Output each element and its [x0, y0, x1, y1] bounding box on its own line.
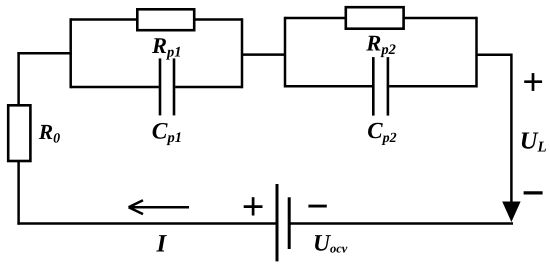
loop1 top wire right of Rp1 [194, 18, 242, 21]
wire R0 column lower vertical [17, 161, 20, 225]
capacitor Cp2 left plate [372, 57, 375, 116]
loop2 top wire right of Rp2 [404, 17, 477, 20]
loop2 right edge vertical [475, 17, 478, 88]
svg-text:UL: UL [520, 128, 547, 156]
svg-text:Rp1: Rp1 [151, 33, 182, 61]
current arrow open head lower stroke [129, 207, 143, 214]
resistor Rp2 [346, 7, 404, 29]
loop1 left edge vertical [69, 18, 72, 88]
svg-text:Uocv: Uocv [313, 230, 348, 256]
capacitor Cp1 right plate [173, 58, 176, 115]
capacitor Cp2 right plate [387, 57, 390, 116]
wire between loop1 and loop2 [242, 53, 285, 56]
battery Uocv long positive plate [276, 184, 279, 261]
loop2 left edge vertical [284, 17, 287, 88]
plus sign load UL [524, 80, 542, 83]
loop2 bottom wire right of Cp2 [389, 85, 476, 88]
loop1 right edge vertical [241, 18, 244, 88]
capacitor Cp1 left plate [159, 58, 162, 115]
svg-text:Rp2: Rp2 [365, 31, 396, 59]
wire bottom left segment to battery [17, 222, 277, 225]
svg-text:Cp2: Cp2 [367, 118, 396, 146]
load arrowhead solid triangle pointing down [502, 202, 520, 223]
minus sign near battery [308, 205, 326, 208]
loop2 bottom wire left of Cp2 [285, 85, 372, 88]
resistor R0 [8, 105, 30, 161]
wire R0 column upper vertical [17, 52, 20, 105]
loop1 bottom wire left of Cp1 [71, 86, 159, 89]
current arrow shaft [129, 206, 189, 209]
svg-text:I: I [156, 231, 168, 258]
current arrow open head upper stroke [129, 200, 143, 207]
loop2 top wire left of Rp2 [285, 17, 346, 20]
loop1 bottom wire right of Cp1 [175, 86, 242, 89]
svg-text:Cp1: Cp1 [152, 118, 182, 146]
minus sign load UL [524, 191, 543, 194]
plus sign near battery [244, 205, 263, 208]
wire output branch vertical down to arrow [510, 54, 513, 204]
resistor Rp1 [137, 9, 194, 30]
loop1 top wire left of Rp1 [71, 18, 138, 21]
wire bottom right segment from battery to load arrow [289, 222, 513, 225]
svg-text:R0: R0 [38, 120, 60, 147]
battery Uocv short negative plate [288, 197, 291, 249]
wire output branch horizontal [477, 53, 512, 56]
wire left branch horizontal from loop1 to R0 column [17, 52, 72, 55]
